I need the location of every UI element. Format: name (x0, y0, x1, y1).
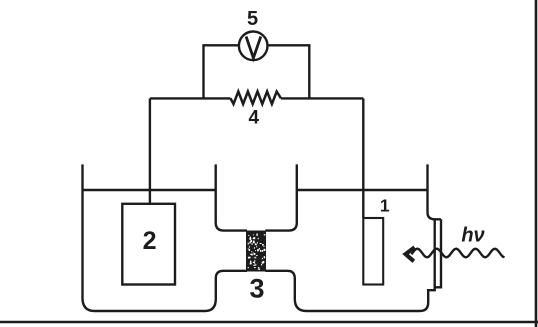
liquid level left (83, 189, 216, 191)
voltmeter V (5) circle (239, 32, 268, 61)
frit channel 3 side walls (247, 231, 265, 271)
svg-text:4: 4 (249, 107, 260, 128)
vessel left compartment wall and floor (83, 164, 248, 311)
hv arrowhead (406, 247, 415, 261)
page border right rule (535, 0, 538, 327)
vessel right wall and window top flange (428, 164, 442, 219)
hv wavy light ray (412, 249, 505, 258)
svg-text:1: 1 (380, 196, 390, 216)
svg-text:2: 2 (143, 227, 157, 255)
electrode 2 (122, 204, 175, 285)
wire: resistor horizontal right (281, 97, 363, 99)
wire: resistor horizontal left (150, 97, 231, 99)
vessel hump right / right floor / window lower step (265, 219, 434, 311)
svg-text:5: 5 (247, 8, 258, 30)
window outer pane line (435, 219, 441, 287)
middle tube left wall (216, 164, 247, 230)
wire: voltmeter right lead (267, 45, 309, 98)
wire: left electrode lead down (149, 98, 151, 203)
svg-text:3: 3 (249, 274, 264, 304)
resistor R4 zigzag (231, 92, 282, 105)
liquid level right (297, 189, 428, 191)
middle tube right wall (265, 164, 297, 230)
frit plug 3 fill (246, 231, 265, 272)
svg-text:hν: hν (461, 225, 484, 247)
page border bottom rule (0, 321, 538, 323)
wire: right electrode lead down (362, 98, 364, 218)
wire: voltmeter left lead (204, 45, 239, 98)
electrode 1 (363, 218, 383, 285)
voltmeter V glyph (246, 37, 261, 59)
